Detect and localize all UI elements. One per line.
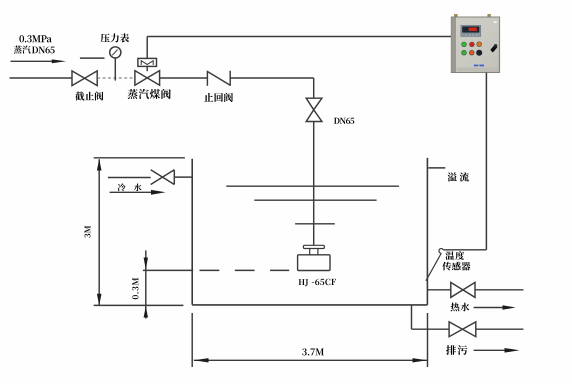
3.7M extension line left: [191, 313, 193, 367]
3M dimension extension line top: [94, 157, 185, 159]
label 3M (rotated): [84, 226, 90, 238]
cold water valve: [151, 170, 175, 185]
steam solenoid valve actuator: [138, 58, 157, 66]
label HJ-65CF: [299, 279, 305, 285]
temperature sensor probe line: [426, 253, 441, 281]
label 0.3M (rotated): [132, 278, 138, 299]
pressure gauge stub line: [80, 57, 105, 59]
DN65 globe valve (vertical): [306, 98, 322, 121]
label 止回阀: [204, 93, 213, 102]
label 蒸汽煤阀: [128, 89, 138, 99]
label 温度 传感器: [442, 251, 470, 270]
water surface line: [226, 185, 399, 187]
pipe elbow down: [313, 78, 315, 98]
3M dimension line: [97, 159, 102, 306]
pipe segment stop valve to solenoid valve (dashed grey): [97, 77, 135, 79]
cold water valve outlet: [174, 176, 192, 178]
label 截止阀: [75, 92, 84, 101]
hot water pipe out: [475, 289, 523, 291]
0.3M dimension line: [144, 250, 148, 318]
pipe segment check valve to elbow: [230, 77, 314, 79]
check valve: [207, 71, 230, 86]
label 0.3MPa steam supply: [19, 35, 54, 53]
second water line: [254, 199, 376, 201]
cold water flow arrow: [110, 190, 166, 195]
drain drop pipe: [412, 305, 450, 329]
tank right wall: [426, 158, 428, 305]
signal wire panel to temperature sensor: [443, 73, 486, 250]
solenoid valve body: [135, 66, 160, 85]
control panel box: [451, 17, 499, 73]
tank left wall: [191, 159, 193, 305]
hot water flow arrow: [474, 305, 516, 310]
label 溢流: [448, 172, 457, 181]
temperature sensor hook: [439, 249, 443, 254]
control wire from solenoid to panel: [147, 37, 451, 59]
control panel mounting tabs: [454, 14, 491, 17]
panel selector switch: [490, 44, 497, 52]
3.7M extension line right: [427, 313, 429, 367]
label 排污: [446, 345, 456, 355]
stop valve (jiezhifa): [72, 71, 97, 86]
panel indicator lights row 2: [462, 50, 482, 55]
cold water pipe: [108, 177, 151, 179]
drain pipe out: [476, 328, 524, 330]
pipe segment solenoid to check valve: [160, 77, 208, 79]
heater level dashed line: [143, 269, 289, 271]
panel brand text: [474, 65, 478, 67]
3M dimension extension line bottom: [94, 304, 184, 306]
steam pipe inlet segment: [10, 77, 73, 79]
3.7M dimension line: [194, 358, 427, 362]
steam flow arrow: [11, 59, 67, 63]
label 3.7M: [302, 348, 307, 355]
label DN65: [334, 118, 340, 124]
label 冷水: [118, 183, 126, 191]
sparger drop pipe: [313, 122, 315, 246]
tank bottom: [192, 304, 427, 306]
hot water valve: [451, 282, 475, 297]
agitator bar: [295, 223, 335, 225]
panel indicator lights row 1: [462, 42, 482, 47]
HJ-65CF heater unit: [298, 245, 330, 270]
panel display: [461, 25, 481, 36]
overflow tick: [428, 167, 445, 169]
pressure gauge: [110, 47, 121, 81]
hot water pipe from tank: [427, 289, 450, 291]
drain valve: [449, 322, 476, 337]
drain flow arrow: [474, 348, 520, 353]
label 压力表: [101, 34, 110, 43]
label 热水: [451, 303, 460, 312]
